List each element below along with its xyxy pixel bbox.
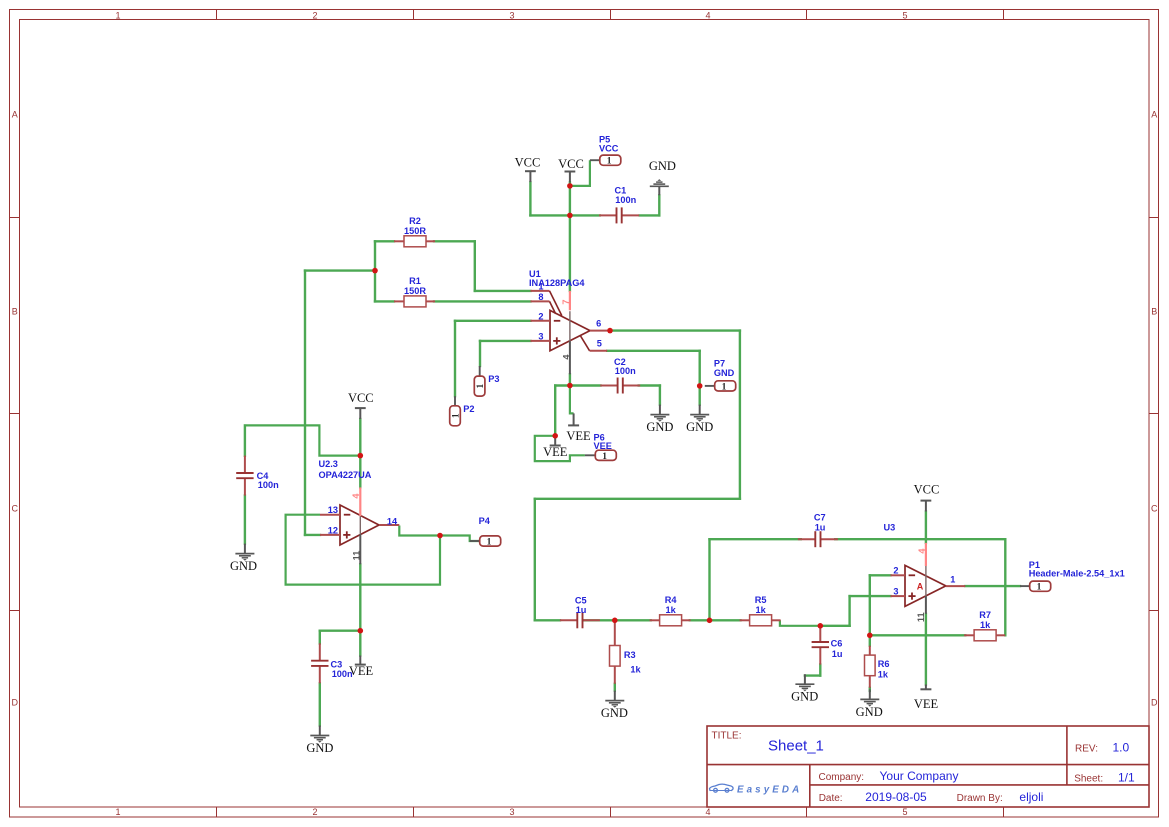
- wire: [244, 496, 246, 544]
- wire: [869, 688, 871, 691]
- EasyEDA logo: [710, 784, 803, 795]
- wire: [569, 182, 571, 291]
- svg-text:11: 11: [916, 612, 926, 622]
- ground: [601, 691, 628, 720]
- op-amp U2.3 OPA4227UA: [319, 459, 400, 564]
- junction: [867, 633, 873, 639]
- wire: [610, 329, 740, 331]
- ground: [649, 159, 676, 195]
- wire: [869, 575, 871, 645]
- wire: [848, 596, 850, 626]
- connector P4: [470, 516, 501, 548]
- power flag VCC: [348, 391, 374, 419]
- wire: [614, 684, 616, 691]
- junction: [818, 623, 824, 629]
- resistor R6: [865, 646, 890, 688]
- connector P3: [474, 366, 499, 396]
- svg-text:1: 1: [607, 157, 612, 167]
- svg-text:VEE: VEE: [566, 429, 591, 443]
- svg-text:1: 1: [487, 538, 492, 548]
- junction: [567, 183, 573, 189]
- wire: [639, 384, 660, 386]
- wire: [659, 386, 661, 405]
- plus sign: [343, 534, 350, 536]
- pin 1 (RG): [531, 290, 550, 292]
- pin 6 (out): [590, 330, 608, 332]
- svg-text:3: 3: [893, 587, 898, 597]
- wire: [554, 386, 556, 436]
- pin 4 V-: [569, 341, 571, 374]
- svg-text:VEE: VEE: [594, 441, 612, 451]
- svg-text:Header-Male-2.54_1x1: Header-Male-2.54_1x1: [1029, 569, 1125, 579]
- svg-text:C7: C7: [814, 513, 826, 523]
- svg-text:Drawn By:: Drawn By:: [957, 793, 1003, 804]
- wire: [434, 300, 531, 302]
- wire: [480, 340, 531, 342]
- power flag VEE: [914, 685, 939, 712]
- op-amp U3 unit A: [884, 522, 966, 622]
- wire: [530, 214, 599, 216]
- svg-text:1k: 1k: [755, 605, 766, 615]
- junction: [707, 618, 713, 624]
- resistor R1: [394, 276, 435, 307]
- svg-text:100n: 100n: [615, 195, 636, 205]
- junction: [567, 383, 573, 389]
- svg-text:VEE: VEE: [543, 445, 568, 459]
- svg-text:B: B: [12, 307, 18, 317]
- connector P7: [705, 359, 736, 393]
- power flag VCC: [515, 156, 541, 182]
- svg-text:1.0: 1.0: [1113, 741, 1130, 755]
- svg-text:U2.3: U2.3: [319, 459, 338, 469]
- svg-text:1: 1: [476, 383, 486, 388]
- wire: [286, 515, 440, 585]
- pin 7 V+ (salmon): [569, 291, 571, 310]
- svg-text:VCC: VCC: [348, 391, 374, 405]
- wire: [805, 674, 820, 676]
- resistor R2: [394, 216, 435, 247]
- svg-text:150R: 150R: [404, 226, 426, 236]
- svg-text:11: 11: [352, 551, 362, 561]
- svg-text:3: 3: [509, 807, 514, 817]
- wire: [607, 350, 700, 352]
- connector P2: [450, 396, 475, 426]
- wire: [690, 619, 741, 621]
- wire: [475, 290, 531, 292]
- junction: [358, 453, 364, 459]
- wire: [319, 683, 321, 725]
- svg-text:4: 4: [705, 10, 710, 20]
- pin line through body: [925, 566, 927, 596]
- svg-text:GND: GND: [714, 368, 735, 378]
- pin 4 V+ (salmon): [359, 487, 361, 516]
- wire: [535, 436, 585, 461]
- wire: [455, 320, 531, 322]
- svg-text:A: A: [917, 582, 924, 592]
- svg-text:100n: 100n: [615, 366, 636, 376]
- wire: [1004, 539, 1006, 635]
- wire: [375, 240, 394, 242]
- svg-text:4: 4: [561, 354, 571, 360]
- svg-text:U3: U3: [884, 522, 896, 532]
- ground: [230, 544, 257, 573]
- svg-text:VCC: VCC: [515, 156, 541, 170]
- svg-text:VCC: VCC: [558, 157, 584, 171]
- svg-text:GND: GND: [646, 420, 673, 434]
- wire: [319, 631, 321, 644]
- svg-text:R6: R6: [878, 659, 890, 669]
- wire: [375, 300, 394, 302]
- svg-text:100n: 100n: [258, 480, 279, 490]
- svg-text:VCC: VCC: [914, 482, 940, 496]
- svg-text:2: 2: [312, 10, 317, 20]
- wire: [835, 538, 1005, 540]
- title block: [707, 726, 1149, 807]
- svg-text:2: 2: [312, 807, 317, 817]
- svg-text:1: 1: [1037, 583, 1042, 593]
- power flag VCC: [558, 157, 584, 183]
- svg-text:1u: 1u: [832, 649, 843, 659]
- svg-text:EasyEDA: EasyEDA: [737, 785, 802, 796]
- svg-text:B: B: [1151, 307, 1157, 317]
- svg-text:1: 1: [950, 574, 955, 584]
- connector P5: [590, 134, 621, 166]
- resistor R3: [610, 620, 642, 684]
- svg-text:150R: 150R: [404, 286, 426, 296]
- wire: [640, 214, 660, 216]
- svg-text:P4: P4: [479, 516, 491, 526]
- svg-text:C: C: [1151, 504, 1158, 514]
- svg-text:R1: R1: [409, 276, 421, 286]
- pin line through body: [359, 516, 361, 534]
- svg-text:1: 1: [115, 10, 120, 20]
- capacitor C7: [798, 513, 838, 548]
- minus sign: [909, 574, 916, 576]
- resistor R4: [650, 595, 691, 626]
- svg-text:3: 3: [538, 331, 543, 341]
- svg-text:VCC: VCC: [599, 143, 619, 153]
- svg-text:Sheet_1: Sheet_1: [768, 738, 824, 755]
- svg-text:GND: GND: [856, 705, 883, 719]
- pin 2 (-): [891, 574, 906, 576]
- pin 14 (out): [379, 524, 399, 526]
- resistor R5: [740, 595, 781, 626]
- wire: [474, 241, 476, 291]
- svg-text:P7: P7: [714, 359, 725, 369]
- junction: [697, 383, 703, 389]
- capacitor C3: [311, 643, 353, 683]
- connector P6: [585, 432, 616, 461]
- svg-text:1: 1: [115, 807, 120, 817]
- junction: [552, 433, 558, 439]
- junction: [612, 618, 618, 624]
- junction: [358, 628, 364, 634]
- svg-text:Sheet:: Sheet:: [1074, 774, 1103, 785]
- wire: [570, 160, 590, 186]
- power flag VEE: [566, 413, 591, 442]
- wire: [739, 331, 741, 499]
- svg-text:1k: 1k: [630, 665, 641, 675]
- wire: [870, 634, 966, 636]
- frame row letters right: [1151, 110, 1158, 708]
- wire: [320, 630, 361, 632]
- wire: [658, 195, 660, 215]
- minus sign: [344, 514, 351, 516]
- power flag VEE: [543, 436, 568, 459]
- pin 8 (RG): [531, 300, 550, 302]
- svg-text:1: 1: [722, 382, 727, 392]
- wire: [359, 564, 361, 630]
- wire: [569, 374, 571, 385]
- svg-text:C5: C5: [575, 595, 587, 605]
- svg-text:P3: P3: [488, 374, 499, 384]
- svg-text:GND: GND: [791, 690, 818, 704]
- capacitor C2: [600, 357, 640, 394]
- wire: [454, 321, 456, 396]
- svg-text:A: A: [12, 110, 18, 120]
- svg-text:4: 4: [705, 807, 710, 817]
- svg-text:VEE: VEE: [914, 697, 939, 711]
- junction: [607, 328, 613, 334]
- wire: [570, 386, 574, 414]
- wire: [820, 625, 849, 627]
- svg-text:GND: GND: [306, 741, 333, 755]
- svg-text:Date:: Date:: [819, 793, 843, 804]
- svg-text:5: 5: [902, 10, 907, 20]
- svg-text:1: 1: [451, 413, 461, 418]
- svg-text:C: C: [12, 504, 19, 514]
- wire: [304, 271, 306, 535]
- capacitor C5: [560, 595, 600, 628]
- ground: [306, 726, 333, 755]
- svg-text:TITLE:: TITLE:: [712, 731, 742, 742]
- wire: [925, 614, 927, 685]
- svg-text:2: 2: [538, 311, 543, 321]
- svg-text:D: D: [1151, 698, 1158, 708]
- op-amp U1 INA128PAG4: [529, 269, 608, 375]
- ground: [856, 689, 883, 718]
- pin 3 (+): [891, 595, 906, 597]
- wire: [555, 384, 600, 386]
- pin 4 V+ (salmon): [925, 543, 927, 566]
- svg-text:R3: R3: [624, 650, 636, 660]
- wire: [780, 620, 820, 626]
- wire: [529, 182, 531, 215]
- frame column numbers bottom: [115, 807, 907, 817]
- wire: [965, 585, 1020, 587]
- junction: [372, 268, 378, 274]
- svg-text:2019-08-05: 2019-08-05: [865, 790, 927, 804]
- svg-text:1k: 1k: [665, 605, 676, 615]
- svg-text:5: 5: [597, 339, 602, 349]
- svg-text:GND: GND: [686, 420, 713, 434]
- pin 5 (ref): [581, 336, 590, 351]
- svg-text:GND: GND: [230, 559, 257, 573]
- wire: [244, 425, 246, 455]
- connector P1: [1020, 560, 1125, 593]
- svg-text:14: 14: [387, 516, 398, 526]
- junction: [567, 213, 573, 219]
- wire: [479, 341, 481, 366]
- title block texts: [712, 731, 1136, 805]
- junction: [437, 533, 443, 539]
- wire: [699, 351, 701, 405]
- power flag VCC: [914, 482, 940, 511]
- capacitor C6: [812, 625, 843, 665]
- svg-text:OPA4227UA: OPA4227UA: [319, 470, 372, 480]
- wire: [535, 619, 560, 621]
- wire: [399, 526, 479, 542]
- wire: [850, 595, 891, 597]
- svg-text:GND: GND: [649, 159, 676, 173]
- pin 13 (-): [320, 514, 340, 516]
- svg-text:A: A: [1151, 110, 1157, 120]
- svg-text:R5: R5: [755, 595, 767, 605]
- svg-text:R7: R7: [979, 610, 991, 620]
- svg-text:Company:: Company:: [819, 772, 865, 783]
- svg-text:4: 4: [351, 493, 361, 499]
- ground: [791, 674, 818, 703]
- wire: [819, 665, 821, 676]
- wire: [708, 539, 710, 620]
- wire: [246, 425, 360, 455]
- svg-text:7: 7: [561, 299, 571, 304]
- frame column numbers top: [115, 10, 907, 20]
- pin 1 (out): [946, 585, 966, 587]
- svg-text:8: 8: [538, 292, 543, 302]
- wire: [359, 631, 361, 656]
- svg-text:13: 13: [328, 505, 338, 515]
- svg-text:C6: C6: [831, 639, 843, 649]
- ground: [646, 405, 673, 434]
- svg-text:R4: R4: [665, 595, 678, 605]
- wire: [305, 269, 375, 271]
- svg-text:VEE: VEE: [349, 664, 374, 678]
- wire: [305, 534, 320, 536]
- wire: [359, 419, 361, 456]
- svg-text:eljoli: eljoli: [1019, 790, 1043, 804]
- svg-text:P2: P2: [463, 404, 474, 414]
- frame row letters left: [12, 110, 19, 708]
- wire: [374, 241, 376, 301]
- plus sign: [553, 340, 560, 342]
- svg-text:1k: 1k: [878, 669, 889, 679]
- wire: [434, 240, 475, 242]
- pin 11 V-: [925, 596, 927, 614]
- svg-text:12: 12: [328, 525, 338, 535]
- svg-text:1/1: 1/1: [1118, 771, 1135, 785]
- wire: [870, 574, 891, 576]
- pin 3 (+): [531, 340, 551, 342]
- svg-text:REV:: REV:: [1075, 744, 1098, 755]
- wire: [583, 619, 651, 621]
- capacitor C1: [599, 186, 639, 224]
- svg-text:1k: 1k: [980, 620, 991, 630]
- capacitor C4: [236, 456, 279, 496]
- svg-text:Your Company: Your Company: [880, 769, 959, 783]
- wire: [359, 456, 361, 488]
- wire: [710, 538, 801, 540]
- svg-text:4: 4: [917, 548, 927, 554]
- wire: [535, 498, 740, 500]
- svg-text:1u: 1u: [576, 605, 587, 615]
- svg-text:6: 6: [596, 319, 601, 329]
- svg-text:D: D: [12, 698, 19, 708]
- pin 11 V-: [359, 534, 361, 564]
- pin 12 (+): [320, 534, 340, 536]
- resistor R7: [964, 610, 1005, 641]
- pin line through body: [569, 311, 571, 341]
- minus sign: [554, 320, 561, 322]
- power flag VEE: [349, 656, 374, 679]
- ground: [686, 405, 713, 434]
- svg-text:2: 2: [893, 566, 898, 576]
- svg-text:INA128PAG4: INA128PAG4: [529, 278, 585, 288]
- svg-text:R2: R2: [409, 216, 421, 226]
- svg-text:5: 5: [902, 807, 907, 817]
- svg-text:GND: GND: [601, 706, 628, 720]
- svg-text:1u: 1u: [815, 523, 826, 533]
- wire: [534, 499, 536, 621]
- plus sign: [908, 595, 915, 597]
- pin 2 (-): [531, 320, 551, 322]
- wire: [925, 512, 927, 543]
- svg-text:1: 1: [602, 452, 607, 462]
- svg-text:3: 3: [509, 10, 514, 20]
